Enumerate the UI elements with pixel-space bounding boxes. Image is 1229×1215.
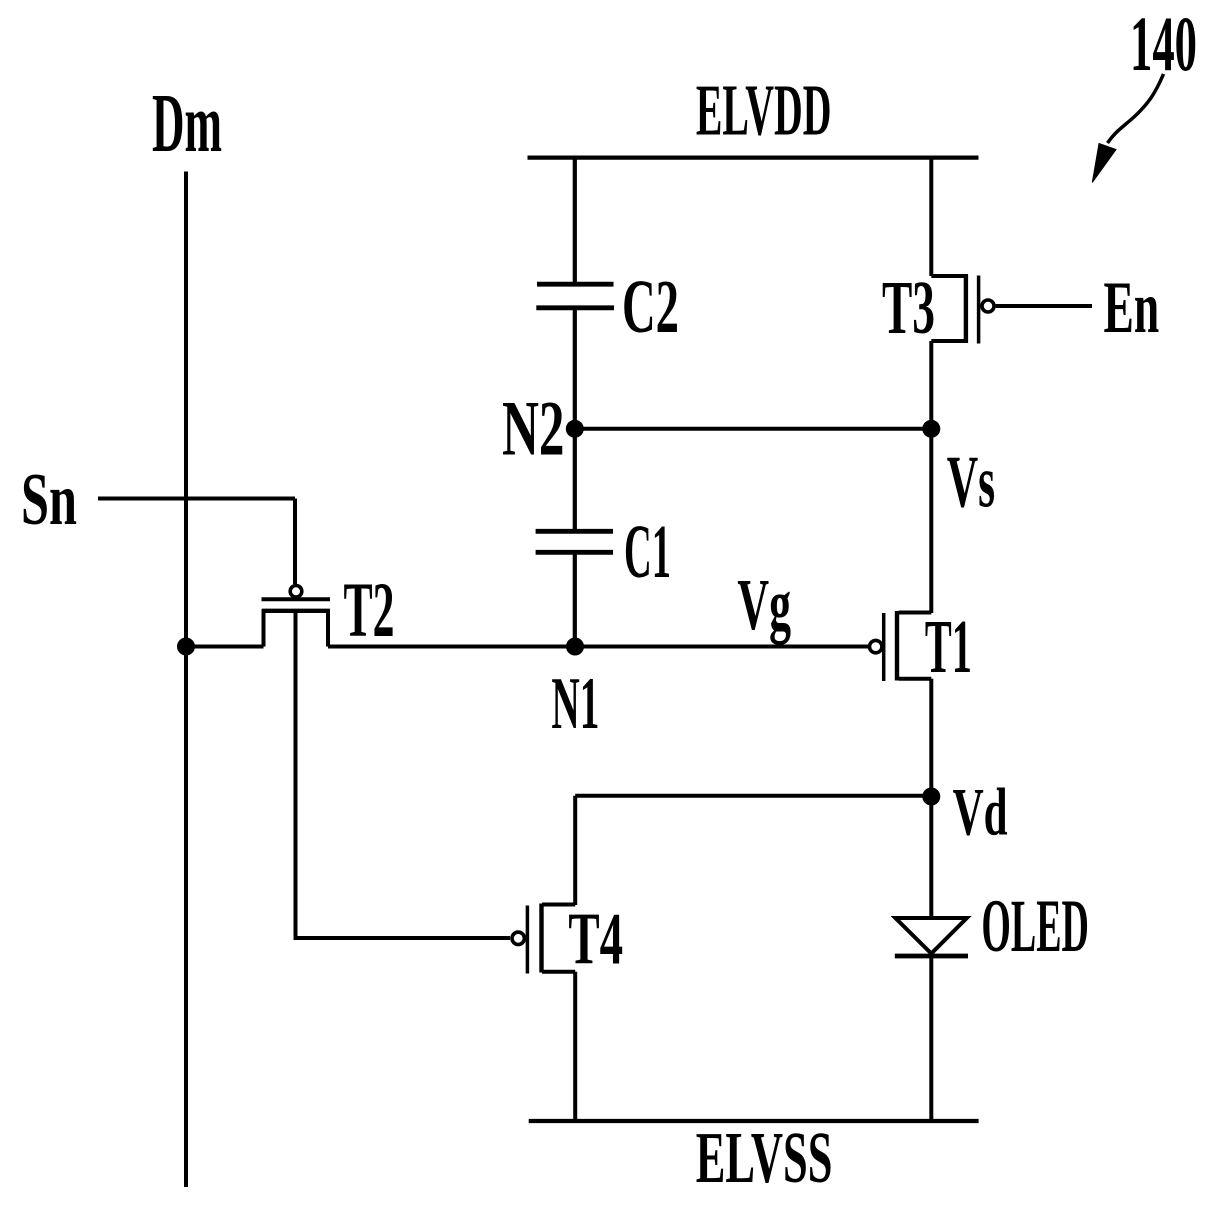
wire T1 to Vd [929, 679, 933, 797]
wire Vs to T1 [929, 429, 933, 613]
label C1 [624, 510, 671, 594]
svg-text:OLED: OLED [981, 885, 1089, 968]
wire Vd to T4 branch [575, 796, 931, 905]
wire OLED to ELVSS [929, 954, 933, 1122]
label Vg [737, 564, 791, 645]
transistor T1 [870, 611, 932, 681]
label Sn [21, 459, 77, 541]
transistor T3 [931, 157, 994, 429]
wire En gate line [996, 304, 1092, 308]
svg-text:140: 140 [1130, 0, 1197, 87]
label C2 [622, 265, 679, 349]
svg-text:C1: C1 [624, 510, 671, 594]
wire N1 horizontal (Dm to T2) [186, 645, 264, 649]
svg-text:En: En [1104, 267, 1160, 349]
label N2 [502, 385, 565, 472]
wire data line Dm [184, 172, 188, 1188]
label En [1104, 267, 1160, 349]
wire N2 to C1 [573, 429, 577, 529]
svg-text:Vd: Vd [953, 774, 1008, 850]
label ELVDD [696, 70, 832, 151]
node Vd dot [922, 788, 940, 806]
capacitor C2 [536, 284, 614, 308]
wire T4 to ELVSS [573, 972, 577, 1121]
node Vs dot [922, 420, 940, 438]
label Vd [953, 774, 1008, 850]
label T3 [882, 266, 935, 350]
label T2 [344, 566, 395, 653]
svg-text:Vg: Vg [737, 564, 791, 645]
svg-text:ELVDD: ELVDD [696, 70, 832, 151]
capacitor C1 [536, 531, 613, 552]
label T1 [925, 605, 972, 689]
svg-text:T2: T2 [344, 566, 395, 653]
label T4 [568, 899, 623, 981]
node N1 dot [566, 638, 584, 656]
label 140 [1130, 0, 1197, 87]
wire N1 horizontal (T2 to T1 gate, Vg) [328, 645, 868, 649]
wire ELVSS rail [529, 1119, 979, 1123]
svg-text:C2: C2 [622, 265, 679, 349]
transistor T2 [262, 586, 331, 647]
svg-text:T1: T1 [925, 605, 972, 689]
label OLED [981, 885, 1089, 968]
label ELVSS [696, 1117, 833, 1198]
wire N2 to Vs [575, 427, 932, 431]
wire C2 to N2 [573, 310, 577, 429]
svg-text:ELVSS: ELVSS [696, 1117, 833, 1198]
svg-text:N2: N2 [502, 385, 565, 472]
svg-text:Vs: Vs [947, 442, 995, 524]
reference arrow 140 [1092, 74, 1163, 182]
diode OLED [895, 918, 968, 956]
svg-text:Sn: Sn [21, 459, 77, 541]
svg-text:N1: N1 [551, 663, 599, 745]
label N1 [551, 663, 599, 745]
svg-text:Dm: Dm [152, 77, 222, 170]
junction dot Dm/N1 [177, 638, 195, 656]
node N2 dot [566, 420, 584, 438]
wire Vd to OLED [929, 797, 933, 917]
svg-text:T4: T4 [568, 899, 623, 981]
wire T2 gate to T4 gate [296, 611, 511, 938]
transistor T4 [512, 904, 575, 974]
wire scan line Sn [98, 499, 295, 585]
label Vs [947, 442, 995, 524]
capacitor C2 branch wire from ELVDD [573, 157, 577, 282]
wire C1 to N1 [573, 554, 577, 647]
label Dm [152, 77, 222, 170]
svg-text:T3: T3 [882, 266, 935, 350]
wire ELVDD rail [528, 156, 979, 160]
